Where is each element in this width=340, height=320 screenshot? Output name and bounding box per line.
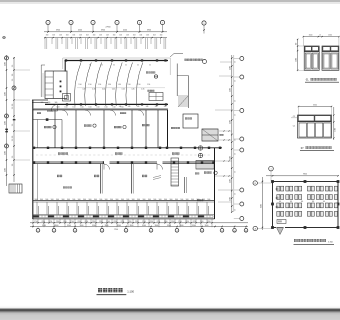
south window wall bbox=[33, 215, 215, 219]
svg-text:0.45: 0.45 bbox=[122, 89, 125, 91]
detail 3 teacher desk bbox=[277, 220, 286, 224]
svg-text:25: 25 bbox=[319, 35, 321, 37]
svg-text:4500: 4500 bbox=[78, 30, 82, 32]
svg-text:2700: 2700 bbox=[128, 221, 132, 223]
middle rooms top wall bbox=[33, 107, 168, 109]
svg-text:1500: 1500 bbox=[328, 35, 332, 37]
bottom-right room label bbox=[197, 199, 203, 201]
svg-text:6: 6 bbox=[139, 23, 140, 25]
svg-text:27900: 27900 bbox=[106, 27, 111, 29]
svg-text:153: 153 bbox=[46, 34, 49, 36]
detail 2 top dimension line bbox=[298, 104, 332, 115]
detail 2 caption bbox=[300, 146, 334, 150]
detail 3 caption bbox=[294, 239, 335, 244]
bottom axis bubbles bbox=[36, 227, 248, 233]
svg-text:2700: 2700 bbox=[77, 221, 81, 223]
sheet title bbox=[97, 288, 135, 295]
svg-text:3300: 3300 bbox=[230, 179, 232, 183]
svg-text:900: 900 bbox=[105, 199, 108, 201]
svg-text:2400: 2400 bbox=[296, 58, 298, 62]
svg-text:2100: 2100 bbox=[335, 128, 337, 132]
svg-text:153: 153 bbox=[66, 34, 69, 36]
svg-text:3900: 3900 bbox=[205, 225, 209, 227]
svg-text:150: 150 bbox=[12, 104, 14, 107]
svg-text:2700: 2700 bbox=[41, 221, 45, 223]
svg-text:900: 900 bbox=[72, 199, 75, 201]
svg-text:10: 10 bbox=[234, 230, 236, 232]
svg-text:153: 153 bbox=[126, 34, 129, 36]
top extension line clusters bbox=[45, 38, 166, 49]
svg-text:3900: 3900 bbox=[67, 225, 71, 227]
east wing hatched platform bbox=[196, 161, 214, 170]
detail marker symbols bbox=[198, 146, 202, 158]
detail 3 top axis bubble bbox=[269, 166, 274, 181]
svg-text:150: 150 bbox=[12, 79, 14, 82]
svg-text:2700: 2700 bbox=[200, 221, 204, 223]
svg-text:2700: 2700 bbox=[149, 221, 153, 223]
classroom labels bbox=[57, 175, 161, 189]
svg-text:153: 153 bbox=[72, 34, 75, 36]
svg-text:900: 900 bbox=[40, 199, 43, 201]
svg-text:150: 150 bbox=[12, 124, 14, 127]
svg-text:153: 153 bbox=[93, 34, 96, 36]
svg-text:900: 900 bbox=[99, 199, 102, 201]
svg-text:900: 900 bbox=[67, 199, 70, 201]
corridor labels bbox=[58, 153, 179, 155]
svg-text:1500: 1500 bbox=[309, 35, 313, 37]
detail 2 window unit bbox=[298, 115, 332, 138]
svg-text:153: 153 bbox=[106, 34, 109, 36]
middle rooms door arcs bbox=[62, 110, 144, 116]
svg-text:2700: 2700 bbox=[99, 221, 103, 223]
east wing store room bbox=[183, 114, 198, 128]
svg-text:0.45: 0.45 bbox=[102, 89, 105, 91]
bottom extension lines bbox=[33, 219, 212, 227]
svg-text:60: 60 bbox=[235, 61, 237, 63]
svg-text:900: 900 bbox=[110, 199, 113, 201]
svg-text:11: 11 bbox=[245, 230, 247, 232]
svg-text:153: 153 bbox=[139, 34, 142, 36]
svg-text:2700: 2700 bbox=[157, 221, 161, 223]
svg-text:1.50: 1.50 bbox=[147, 84, 150, 86]
svg-text:900: 900 bbox=[78, 199, 81, 201]
svg-text:900: 900 bbox=[186, 199, 189, 201]
annex room west of hall bbox=[41, 65, 67, 99]
classroom top wall bbox=[33, 161, 215, 164]
svg-text:240: 240 bbox=[164, 106, 167, 108]
top-right wing axis bubble bbox=[202, 21, 206, 34]
svg-text:60: 60 bbox=[101, 64, 103, 66]
svg-text:60: 60 bbox=[235, 114, 237, 116]
detail 3 door swing bbox=[277, 228, 284, 235]
svg-text:3300: 3300 bbox=[230, 88, 232, 92]
svg-text:153: 153 bbox=[86, 34, 89, 36]
svg-text:900: 900 bbox=[191, 199, 194, 201]
svg-text:240: 240 bbox=[146, 106, 149, 108]
svg-text:60: 60 bbox=[235, 80, 237, 82]
plan west wall bbox=[32, 100, 34, 219]
rear exit strip east of hall bbox=[177, 64, 188, 109]
svg-text:3300: 3300 bbox=[313, 104, 317, 106]
svg-text:1:100: 1:100 bbox=[127, 289, 134, 293]
svg-text:2700: 2700 bbox=[193, 221, 197, 223]
svg-text:2700: 2700 bbox=[121, 221, 125, 223]
detail 3 row annotations bbox=[279, 201, 325, 203]
detail 3 left dimension line and bubbles bbox=[253, 177, 273, 231]
hall bottom wall bbox=[45, 103, 168, 105]
detail 1 door unit A bbox=[304, 46, 319, 70]
svg-text:60: 60 bbox=[89, 64, 91, 66]
leader label with ref bubble bbox=[170, 54, 207, 64]
svg-text:C1: C1 bbox=[293, 126, 295, 128]
svg-text:2700: 2700 bbox=[113, 221, 117, 223]
svg-text:900: 900 bbox=[89, 199, 92, 201]
hall top wall bbox=[65, 59, 169, 61]
svg-text:900: 900 bbox=[164, 199, 167, 201]
svg-text:153: 153 bbox=[160, 34, 163, 36]
svg-text:5: 5 bbox=[126, 230, 127, 232]
svg-text:3300: 3300 bbox=[230, 120, 232, 124]
detail 3 room walls bbox=[271, 180, 339, 229]
svg-text:1.50: 1.50 bbox=[118, 84, 121, 86]
svg-text:153: 153 bbox=[113, 34, 116, 36]
svg-text:1.50: 1.50 bbox=[78, 84, 81, 86]
svg-text:2: 2 bbox=[48, 23, 49, 25]
svg-text:900: 900 bbox=[202, 199, 205, 201]
svg-text:900: 900 bbox=[121, 199, 124, 201]
svg-text:9: 9 bbox=[204, 23, 205, 25]
svg-text:240: 240 bbox=[119, 106, 122, 108]
bottom dimension line 1 bbox=[30, 221, 248, 224]
svg-text:900: 900 bbox=[51, 199, 54, 201]
svg-text:900: 900 bbox=[312, 201, 314, 203]
svg-text:3900: 3900 bbox=[155, 225, 159, 227]
svg-text:900: 900 bbox=[132, 199, 135, 201]
svg-text:07.: 07. bbox=[301, 147, 305, 150]
svg-text:1.50: 1.50 bbox=[98, 84, 101, 86]
classroom door arcs bbox=[104, 164, 163, 170]
svg-text:3900: 3900 bbox=[105, 225, 109, 227]
svg-text:60: 60 bbox=[235, 100, 237, 102]
svg-text:60: 60 bbox=[235, 193, 237, 195]
svg-text:1.50: 1.50 bbox=[88, 84, 91, 86]
sheet top edge lines bbox=[0, 1, 340, 3]
corridor centre dashed line bbox=[36, 154, 212, 156]
svg-text:3: 3 bbox=[71, 23, 72, 25]
svg-text:2700: 2700 bbox=[85, 221, 89, 223]
svg-text:240: 240 bbox=[155, 106, 158, 108]
detail 1 door unit B bbox=[322, 46, 339, 70]
svg-text:3: 3 bbox=[75, 230, 76, 232]
svg-text:1.50: 1.50 bbox=[127, 84, 130, 86]
exterior stair ladder strip bbox=[171, 158, 179, 186]
svg-text:2700: 2700 bbox=[207, 221, 211, 223]
detail 3 wall-side circles bbox=[276, 188, 278, 208]
svg-text:2: 2 bbox=[54, 230, 55, 232]
middle rooms partitions bbox=[33, 110, 168, 148]
svg-text:2700: 2700 bbox=[56, 221, 60, 223]
svg-text:60: 60 bbox=[137, 64, 139, 66]
svg-text:3900: 3900 bbox=[130, 225, 134, 227]
svg-text:900: 900 bbox=[301, 201, 303, 203]
detail 1 top dimension line bbox=[303, 35, 340, 47]
hall podium bbox=[63, 94, 71, 102]
left axis dimension lines bbox=[4, 55, 30, 186]
svg-text:900: 900 bbox=[62, 199, 65, 201]
svg-text:0.45: 0.45 bbox=[112, 89, 115, 91]
svg-text:2700: 2700 bbox=[106, 221, 110, 223]
svg-text:3900: 3900 bbox=[147, 30, 151, 32]
svg-text:9800: 9800 bbox=[303, 174, 307, 176]
svg-text:3300: 3300 bbox=[4, 62, 6, 66]
svg-text:2700: 2700 bbox=[34, 221, 38, 223]
svg-text:2700: 2700 bbox=[70, 221, 74, 223]
svg-text:150: 150 bbox=[12, 65, 14, 68]
svg-text:27900: 27900 bbox=[114, 229, 118, 231]
svg-text:1: 1 bbox=[38, 230, 39, 232]
svg-text:2700: 2700 bbox=[171, 221, 175, 223]
svg-text:60: 60 bbox=[235, 171, 237, 173]
svg-text:240: 240 bbox=[128, 106, 131, 108]
svg-text:60: 60 bbox=[125, 64, 127, 66]
svg-text:2700: 2700 bbox=[185, 221, 189, 223]
detail 1 left dimension line bbox=[296, 39, 305, 71]
left entrance steps bbox=[9, 184, 22, 193]
svg-text:3900: 3900 bbox=[192, 225, 196, 227]
svg-text:900: 900 bbox=[180, 199, 183, 201]
svg-text:3300: 3300 bbox=[4, 121, 6, 125]
svg-text:900: 900 bbox=[83, 199, 86, 201]
svg-text:3300: 3300 bbox=[230, 156, 232, 160]
svg-text:900: 900 bbox=[41, 102, 44, 104]
detail 2 tag texts bbox=[291, 116, 298, 128]
svg-text:900: 900 bbox=[290, 201, 292, 203]
svg-text:600: 600 bbox=[296, 43, 298, 46]
svg-text:1.50: 1.50 bbox=[108, 84, 111, 86]
svg-text:153: 153 bbox=[52, 34, 55, 36]
svg-text:0.45: 0.45 bbox=[131, 89, 134, 91]
svg-text:0.45: 0.45 bbox=[92, 89, 95, 91]
svg-text:900: 900 bbox=[148, 199, 151, 201]
right axis dimension lines bbox=[215, 55, 237, 213]
svg-text:3900: 3900 bbox=[92, 225, 96, 227]
svg-text:900: 900 bbox=[197, 199, 200, 201]
svg-text:4: 4 bbox=[102, 230, 103, 232]
svg-text:60: 60 bbox=[113, 64, 115, 66]
svg-text:8100: 8100 bbox=[260, 204, 262, 208]
svg-text:5: 5 bbox=[117, 23, 118, 25]
bottom dimension line 3 bbox=[114, 229, 118, 231]
svg-text:900: 900 bbox=[175, 199, 178, 201]
svg-text:900: 900 bbox=[153, 199, 156, 201]
svg-text:3900: 3900 bbox=[167, 225, 171, 227]
right axis bubbles bbox=[234, 57, 244, 221]
svg-text:1: 1 bbox=[270, 169, 271, 171]
east wing wall pair bbox=[185, 173, 200, 194]
svg-text:3300: 3300 bbox=[4, 151, 6, 155]
svg-text:900: 900 bbox=[56, 199, 59, 201]
svg-text:900: 900 bbox=[55, 102, 58, 104]
svg-text:60: 60 bbox=[235, 139, 237, 141]
svg-text:150: 150 bbox=[12, 156, 14, 159]
svg-text:3900: 3900 bbox=[42, 225, 46, 227]
svg-text:150: 150 bbox=[12, 107, 14, 110]
svg-text:2700: 2700 bbox=[92, 221, 96, 223]
svg-text:900: 900 bbox=[137, 199, 140, 201]
svg-text:240: 240 bbox=[137, 106, 140, 108]
bottom dimension line 2 bbox=[30, 225, 248, 227]
svg-text:153: 153 bbox=[133, 34, 136, 36]
svg-text:153: 153 bbox=[59, 34, 62, 36]
svg-text:8: 8 bbox=[202, 230, 203, 232]
svg-text:3900: 3900 bbox=[101, 30, 105, 32]
veranda dimension text row bbox=[35, 199, 211, 201]
svg-text:60: 60 bbox=[149, 64, 151, 66]
middle-left block top wall bbox=[32, 100, 48, 103]
svg-text:150: 150 bbox=[12, 164, 14, 167]
svg-text:900: 900 bbox=[279, 201, 281, 203]
hall interior dimension text rows bbox=[41, 64, 167, 108]
svg-text:60: 60 bbox=[235, 153, 237, 155]
svg-text:153: 153 bbox=[153, 34, 156, 36]
svg-text:0.45: 0.45 bbox=[141, 89, 144, 91]
svg-text:153: 153 bbox=[99, 34, 102, 36]
svg-text:3300: 3300 bbox=[4, 92, 6, 96]
detail 1 caption bbox=[305, 78, 339, 82]
svg-text:900: 900 bbox=[126, 199, 129, 201]
svg-text:900: 900 bbox=[323, 201, 325, 203]
svg-text:2700: 2700 bbox=[49, 221, 53, 223]
svg-text:900: 900 bbox=[94, 199, 97, 201]
svg-text:3300: 3300 bbox=[230, 197, 232, 201]
east stair flight bbox=[202, 129, 223, 141]
svg-text:150: 150 bbox=[12, 74, 14, 77]
svg-text:9: 9 bbox=[222, 230, 223, 232]
svg-text:153: 153 bbox=[79, 34, 82, 36]
svg-text:2700: 2700 bbox=[135, 221, 139, 223]
svg-text:2700: 2700 bbox=[164, 221, 168, 223]
svg-text:0.45: 0.45 bbox=[82, 89, 85, 91]
svg-text:900: 900 bbox=[170, 199, 173, 201]
svg-text:900: 900 bbox=[207, 199, 210, 201]
svg-text:7: 7 bbox=[162, 23, 163, 25]
svg-text:4: 4 bbox=[93, 23, 94, 25]
south veranda wall bbox=[33, 201, 215, 203]
detail 3 top dimension line bbox=[266, 174, 339, 177]
top dimension line 1 bbox=[44, 27, 167, 33]
svg-text:3900: 3900 bbox=[56, 30, 60, 32]
classroom door gaps bbox=[104, 161, 163, 164]
svg-text:900: 900 bbox=[159, 199, 162, 201]
svg-text:7: 7 bbox=[177, 230, 178, 232]
sheet edge mark bbox=[3, 36, 6, 39]
svg-text:3900: 3900 bbox=[55, 225, 59, 227]
svg-text:4200: 4200 bbox=[123, 30, 127, 32]
svg-text:150: 150 bbox=[12, 139, 14, 142]
svg-text:900: 900 bbox=[143, 199, 146, 201]
svg-text:150: 150 bbox=[12, 136, 14, 139]
detail 2 right dimension line bbox=[333, 107, 336, 140]
hall east zone labels and bench bbox=[146, 72, 163, 101]
veranda posts bbox=[37, 202, 208, 215]
middle rooms labels bbox=[37, 110, 149, 129]
svg-text:900: 900 bbox=[35, 199, 38, 201]
svg-text:900: 900 bbox=[116, 199, 119, 201]
classroom partitions bbox=[101, 148, 215, 219]
left axis bubbles bbox=[5, 56, 17, 148]
svg-text:153: 153 bbox=[119, 34, 122, 36]
hall door arc bbox=[51, 105, 58, 112]
lecture hall tiered seating arcs bbox=[74, 63, 142, 107]
svg-text:6: 6 bbox=[151, 230, 152, 232]
east wing corridor label bbox=[171, 127, 180, 129]
hall left wall bbox=[64, 60, 66, 72]
svg-text:60: 60 bbox=[235, 209, 237, 211]
svg-text:3300: 3300 bbox=[4, 168, 6, 172]
svg-text:3900: 3900 bbox=[80, 225, 84, 227]
svg-text:2700: 2700 bbox=[142, 221, 146, 223]
svg-text:3900: 3900 bbox=[117, 225, 121, 227]
detail 3 desk rows bbox=[277, 186, 338, 216]
svg-text:1.50: 1.50 bbox=[137, 84, 140, 86]
east wing room label bbox=[204, 171, 217, 174]
svg-text:900: 900 bbox=[48, 102, 51, 104]
svg-text:900: 900 bbox=[45, 199, 48, 201]
svg-text:2700: 2700 bbox=[63, 221, 67, 223]
eaves outline above hall bbox=[63, 58, 170, 75]
svg-text:01.: 01. bbox=[306, 79, 310, 82]
svg-text:2700: 2700 bbox=[178, 221, 182, 223]
middle rooms bottom wall bbox=[33, 147, 222, 149]
top axis bubbles row bbox=[46, 20, 165, 31]
svg-text:153: 153 bbox=[146, 34, 149, 36]
svg-text:3900: 3900 bbox=[142, 225, 146, 227]
plan west wall inner face bbox=[37, 120, 39, 148]
svg-text:3900: 3900 bbox=[180, 225, 184, 227]
top dimension line 2 bbox=[44, 34, 167, 38]
svg-text:3300: 3300 bbox=[230, 66, 232, 70]
